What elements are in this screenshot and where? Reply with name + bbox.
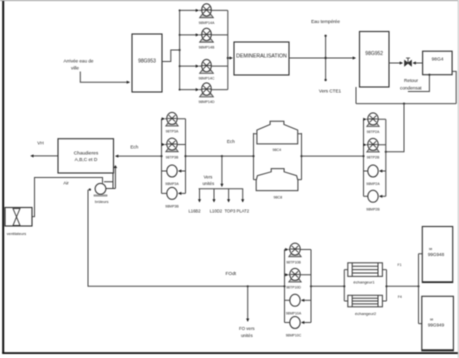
blower bruleurs (94, 165, 117, 204)
unit echangeur2 (348, 295, 383, 307)
node Eau temperee (311, 19, 340, 24)
node Vers unites (202, 175, 215, 186)
border left (2, 0, 4, 354)
svg-text:PLAT2: PLAT2 (237, 208, 250, 213)
svg-text:FO vers: FO vers (239, 326, 255, 331)
svg-text:98MP3A: 98MP3A (165, 182, 179, 186)
wire left bank to tanks (186, 155, 254, 157)
tank 98G4 (423, 51, 453, 74)
svg-text:99G948: 99G948 (428, 252, 445, 257)
svg-text:unités: unités (241, 333, 254, 338)
svg-text:FOdt: FOdt (225, 271, 236, 277)
svg-text:DEMINERALISATION: DEMINERALISATION (236, 54, 287, 60)
node FO vers unites (239, 326, 255, 338)
wire VH arrow (31, 155, 58, 157)
svg-text:98TP2A: 98TP2A (367, 130, 380, 134)
node junction (403, 103, 405, 105)
wire riser to right bank (386, 104, 404, 152)
wire tanks right bus (298, 133, 302, 180)
tank 98C4 (257, 121, 298, 144)
unit echangeur1 (348, 263, 383, 277)
svg-text:échangeur2: échangeur2 (355, 311, 377, 316)
svg-text:TOP3: TOP3 (224, 208, 236, 213)
valve V1 (405, 58, 412, 66)
pump 98TP3A (162, 112, 186, 133)
unit ventilateurs (5, 208, 32, 227)
svg-text:98G4: 98G4 (432, 57, 444, 63)
pump 98TP10B (285, 243, 312, 264)
pump 98TP3B (162, 138, 186, 159)
node Vers CTE1 (319, 89, 342, 94)
wire 98G952 to valve (389, 62, 403, 64)
wire ventilateur to air duct (32, 178, 103, 217)
node unit labels (188, 208, 249, 213)
node junction bottom bank out (310, 285, 312, 287)
svg-text:98MP3B: 98MP3B (165, 204, 179, 208)
svg-text:98C8: 98C8 (274, 195, 283, 199)
node F4 mark (398, 295, 402, 299)
node Ech right (227, 139, 235, 144)
tank 99G948 (422, 227, 452, 283)
svg-text:VH: VH (37, 141, 43, 146)
node junction vers unites (221, 155, 223, 157)
wire exchanger left bus (344, 270, 348, 301)
wire drop L10D2 (213, 189, 215, 202)
svg-text:échangeur1: échangeur1 (353, 279, 375, 284)
node Ech left (130, 145, 138, 150)
svg-text:98MP2B: 98MP2B (366, 207, 380, 211)
wire drop PLAT2 (242, 189, 244, 202)
svg-text:99G949: 99G949 (428, 323, 445, 328)
border right (458, 0, 459, 358)
pump 98MP2B (364, 190, 386, 211)
svg-text:Arrivée eau de: Arrivée eau de (64, 59, 94, 64)
pump 98MP10A (285, 294, 312, 315)
wire FO vers unites drop (247, 286, 249, 321)
svg-text:98TP2B: 98TP2B (367, 156, 380, 160)
wire riser to 99G948 and 99G949 (419, 254, 423, 324)
svg-text:Retour: Retour (404, 78, 419, 83)
svg-text:Vers CTE1: Vers CTE1 (319, 89, 342, 94)
wire drop TOP3 (228, 189, 230, 202)
node junction left bank in (160, 155, 162, 157)
svg-text:Ech: Ech (227, 139, 235, 144)
svg-text:98: 98 (429, 247, 433, 251)
svg-text:Eau tempérée: Eau tempérée (311, 19, 340, 24)
wire manifold to demineralisation (228, 57, 233, 59)
unit DEMINERALISATION (234, 42, 289, 75)
svg-text:98TP3B: 98TP3B (166, 155, 179, 159)
pump 98MP10C (285, 317, 312, 338)
svg-text:Vers: Vers (204, 175, 214, 180)
pump 98MP3A (162, 165, 186, 186)
wire unites header (199, 188, 244, 190)
svg-text:98C4: 98C4 (273, 148, 282, 152)
node junction bottom bank in (283, 285, 285, 287)
svg-text:unités: unités (202, 181, 215, 186)
wire right manifold bottom bank (310, 250, 312, 323)
node F1 mark (398, 263, 402, 267)
pump 98MP14C (179, 59, 228, 80)
svg-text:Ech: Ech (130, 145, 138, 150)
wire 98G4 right loop down (452, 71, 456, 103)
wire demin out to 98G952 (289, 57, 356, 59)
node Arrivee eau de ville (64, 59, 94, 71)
svg-text:98TP3A: 98TP3A (166, 130, 179, 134)
svg-text:98MP2A: 98MP2A (366, 182, 380, 186)
svg-text:98MP10A: 98MP10A (286, 311, 302, 315)
svg-text:ventilateurs: ventilateurs (7, 232, 27, 236)
node Air (63, 181, 69, 186)
border bottom (2, 352, 459, 354)
wire left manifold left bank (161, 119, 163, 194)
svg-text:98MP14D: 98MP14D (199, 100, 215, 104)
wire eau temperee tap (325, 36, 327, 80)
svg-text:98MP10C: 98MP10C (286, 334, 302, 338)
border top (0, 0, 459, 1)
pump 98MP14B (179, 28, 228, 49)
wire tanks to right bank (302, 155, 364, 157)
unit Chaudieres ABCD (58, 139, 114, 173)
node FOd (225, 271, 236, 277)
wire drop L16B2 (199, 189, 201, 202)
wire tanks left bus (254, 133, 257, 180)
svg-text:ville: ville (71, 65, 79, 70)
pump 98MP14D (179, 83, 228, 104)
svg-text:L10D2: L10D2 (210, 208, 223, 213)
wire exchangers to G boxes (387, 285, 419, 287)
tank 98G952 (360, 32, 390, 88)
svg-text:brûleurs: brûleurs (95, 200, 109, 204)
pump 98TP2B (364, 138, 386, 159)
wire left manifold top bank (179, 10, 181, 89)
pump 98MP2A (364, 165, 386, 186)
node junction left bank out (184, 155, 186, 157)
svg-text:Chaudieres: Chaudieres (74, 151, 99, 157)
svg-text:98TP10D: 98TP10D (286, 286, 301, 290)
node junction FO drop (247, 285, 249, 287)
wire bottom bank to exchangers (311, 285, 344, 287)
svg-text:98MP14A: 98MP14A (199, 21, 215, 25)
wire vers unites drop (221, 156, 223, 186)
wire right manifold right bank (385, 119, 387, 196)
svg-text:A,B,C et D: A,B,C et D (75, 157, 98, 163)
svg-text:98MP14B: 98MP14B (199, 46, 215, 50)
pump 98TP10D (285, 268, 312, 289)
pump 98MP14A (179, 4, 228, 25)
svg-text:F4: F4 (398, 295, 402, 299)
node junction (179, 49, 181, 51)
wire left manifold right bank (363, 119, 365, 196)
svg-text:98MP14C: 98MP14C (199, 77, 215, 81)
node junction right bank in (362, 155, 364, 157)
svg-text:F1: F1 (398, 263, 402, 267)
wire arrivee to 98G953 (80, 72, 129, 83)
pump 98TP2A (364, 113, 386, 134)
node Retour condensat (400, 78, 422, 90)
svg-text:98G953: 98G953 (138, 59, 156, 65)
svg-text:98TP10B: 98TP10B (286, 260, 301, 264)
wire right manifold top bank (227, 10, 229, 89)
wire 98G952 bottom riser (355, 87, 357, 104)
wire exchanger right bus (382, 270, 386, 301)
wire 98G4 bottom return (408, 75, 430, 92)
pump 98MP3B (162, 187, 186, 208)
wire long return line (356, 103, 456, 105)
wire right manifold left bank (185, 119, 187, 194)
wire left manifold bottom bank (284, 250, 286, 323)
tank 99G949 (422, 296, 454, 351)
wire chaudieres to left bank (116, 155, 162, 157)
wire 98G953 out to manifold (162, 50, 180, 62)
tank 98C8 (256, 169, 298, 191)
svg-text:L16B2: L16B2 (188, 208, 201, 213)
svg-text:Air: Air (63, 181, 69, 186)
node junction G boxes (417, 285, 419, 287)
wire valve to 98G4 (413, 62, 423, 64)
wire fuel line down (89, 188, 91, 190)
svg-text:98: 98 (430, 318, 434, 322)
svg-text:condensat: condensat (400, 85, 422, 90)
node VH (37, 141, 43, 146)
svg-text:98G952: 98G952 (365, 51, 383, 57)
tank 98G953 (132, 34, 162, 92)
